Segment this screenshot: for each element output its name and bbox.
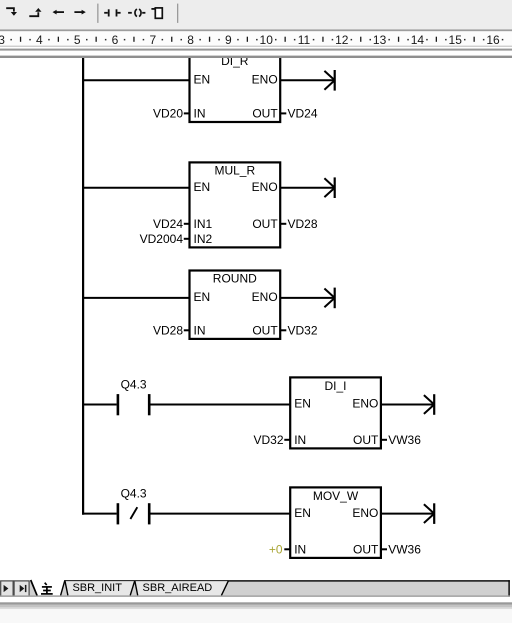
svg-text:EN: EN	[294, 506, 311, 520]
svg-text:14: 14	[411, 33, 425, 47]
stub OUT to VD32	[281, 329, 287, 331]
tab SBR_INIT	[65, 581, 135, 595]
toolbar icon: right arrow	[74, 11, 82, 13]
contact Q4.3 (NC) bar 1	[117, 503, 120, 524]
svg-text:EN: EN	[294, 397, 311, 411]
svg-text:ENO: ENO	[352, 506, 378, 520]
tab bar base	[0, 580, 510, 595]
arrow network 4	[433, 394, 435, 415]
svg-text:6: 6	[112, 33, 119, 47]
block MOV_W	[290, 487, 381, 558]
svg-text:SBR_AIREAD: SBR_AIREAD	[143, 582, 213, 594]
svg-text:IN: IN	[194, 324, 206, 338]
svg-text:15: 15	[449, 33, 463, 47]
svg-text:IN: IN	[294, 433, 306, 447]
wire: MOV_W ENO to arrow	[381, 513, 434, 515]
contact Q4.3 (NO) bar 2	[148, 394, 151, 415]
stub VD32 to IN	[284, 439, 289, 441]
wire: contact to MOV_W EN	[151, 513, 291, 515]
stub OUT to VW36	[382, 439, 388, 441]
toolbar bottom border	[0, 29, 512, 31]
svg-text:VW36: VW36	[388, 433, 421, 447]
svg-text:ROUND: ROUND	[213, 272, 257, 286]
wire: contact to DI_I EN	[151, 404, 291, 406]
svg-text:10: 10	[260, 33, 274, 47]
contact Q4.3 (NO) bar 1	[117, 394, 120, 415]
arrow network 5	[433, 503, 435, 524]
arrow network 1	[334, 70, 336, 91]
toolbar icon: box	[151, 8, 155, 10]
toolbar icon: contact	[104, 12, 108, 14]
block DI_R	[190, 54, 281, 122]
separator line upper	[0, 49, 512, 51]
stub VD24 to IN1	[184, 223, 189, 225]
ruler bottom edge	[0, 46, 512, 47]
svg-text:DI_I: DI_I	[324, 379, 346, 393]
contact Q4.3 (NC) bar 2	[148, 503, 151, 524]
svg-text:OUT: OUT	[252, 217, 278, 231]
svg-text:MUL_R: MUL_R	[214, 163, 255, 177]
svg-text:VD2004: VD2004	[140, 232, 184, 246]
svg-text:VD24: VD24	[153, 217, 183, 231]
svg-text:VD24: VD24	[288, 107, 318, 121]
svg-text:ENO: ENO	[352, 397, 378, 411]
svg-text:ENO: ENO	[252, 180, 278, 194]
svg-text:7: 7	[149, 33, 156, 47]
svg-text:EN: EN	[194, 290, 211, 304]
wire: DI_R ENO to arrow	[280, 79, 335, 81]
svg-text:13: 13	[373, 33, 387, 47]
toolbar icon: left arrow	[56, 11, 64, 13]
svg-text:9: 9	[225, 33, 232, 47]
tab SBR_AIREAD	[135, 581, 229, 595]
arrow network 3	[334, 288, 336, 309]
left power rail	[82, 58, 84, 515]
wire: rail to contact Q4.3	[82, 404, 117, 406]
svg-text:VD28: VD28	[288, 217, 318, 231]
svg-text:IN: IN	[294, 543, 306, 557]
svg-text:4: 4	[36, 33, 43, 47]
stub VD28 to IN	[184, 329, 189, 331]
svg-text:OUT: OUT	[353, 543, 379, 557]
svg-text:12: 12	[335, 33, 349, 47]
glyph main (zhu)	[41, 583, 53, 594]
arrow network 2	[334, 177, 336, 198]
toolbar separator 2	[177, 4, 178, 23]
tab bar right border	[508, 580, 509, 597]
svg-text:OUT: OUT	[353, 433, 379, 447]
wire: rail to contact Q4.3 NC	[82, 513, 117, 515]
NC slash	[130, 507, 137, 519]
tab top border line	[65, 580, 510, 581]
wire: MUL_R ENO to arrow	[280, 187, 335, 189]
stub VD2004 to IN2	[184, 238, 189, 240]
svg-text:ENO: ENO	[252, 290, 278, 304]
svg-text:EN: EN	[194, 73, 211, 87]
svg-text:EN: EN	[194, 180, 211, 194]
svg-text:ENO: ENO	[252, 73, 278, 87]
svg-text:Q4.3: Q4.3	[121, 378, 147, 392]
svg-text:Q4.3: Q4.3	[121, 487, 147, 501]
svg-text:IN2: IN2	[194, 232, 213, 246]
svg-text:OUT: OUT	[252, 324, 278, 338]
svg-text:VD32: VD32	[253, 433, 283, 447]
svg-text:VD32: VD32	[288, 324, 318, 338]
toolbar icon: network down arrow	[6, 8, 14, 11]
wire: rail to ROUND EN	[82, 297, 190, 299]
svg-text:VW36: VW36	[388, 543, 421, 557]
svg-text:OUT: OUT	[252, 107, 278, 121]
block DI_I	[290, 377, 381, 448]
block ROUND	[190, 271, 281, 339]
svg-text:3: 3	[0, 33, 5, 47]
svg-text:5: 5	[74, 33, 81, 47]
tab scroll button 1	[1, 581, 13, 596]
block MUL_R	[190, 162, 281, 247]
stub VD20 to IN	[184, 112, 189, 114]
toolbar separator 1	[97, 4, 98, 23]
svg-text:VD28: VD28	[153, 324, 183, 338]
active tab main	[31, 580, 65, 595]
tab bar bottom edge	[0, 595, 510, 597]
svg-text:16: 16	[486, 33, 500, 47]
svg-text:DI_R: DI_R	[221, 58, 249, 68]
svg-text:SBR_INIT: SBR_INIT	[72, 582, 122, 594]
wire: rail to DI_R EN	[82, 79, 190, 81]
stub OUT to VD24	[281, 112, 287, 114]
stub +0 to IN	[284, 548, 289, 550]
tab scroll button 2	[14, 581, 29, 596]
svg-text:IN1: IN1	[194, 217, 213, 231]
wire: DI_I ENO to arrow	[381, 404, 434, 406]
svg-text:VD20: VD20	[153, 107, 183, 121]
svg-text:11: 11	[298, 33, 311, 47]
status area bands	[0, 597, 512, 602]
svg-text:MOV_W: MOV_W	[313, 489, 359, 503]
svg-text:+0: +0	[269, 543, 283, 557]
stub OUT to VD28	[281, 223, 287, 225]
wire: ROUND ENO to arrow	[280, 297, 335, 299]
svg-text:IN: IN	[194, 107, 206, 121]
toolbar icon: network up arrow	[29, 12, 38, 16]
toolbar icon: coil	[128, 12, 132, 14]
separator line lower	[0, 56, 512, 58]
ruler background	[0, 31, 512, 45]
stub OUT to VW36 (MOV_W)	[382, 548, 388, 550]
wire: rail to MUL_R EN	[82, 187, 190, 189]
toolbar background	[0, 0, 512, 29]
svg-text:8: 8	[187, 33, 194, 47]
